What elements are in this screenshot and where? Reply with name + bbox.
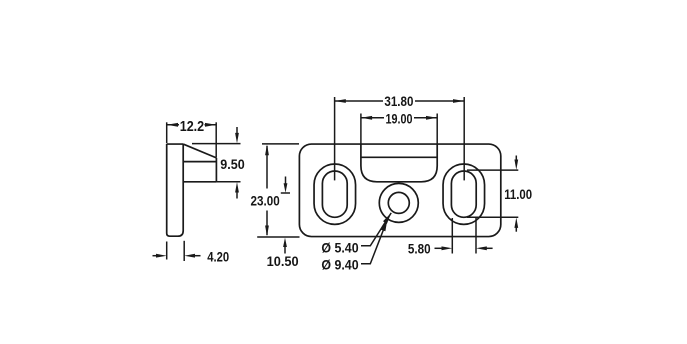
dim 11.00 lower arrow stem [515,227,517,232]
arrowhead leader 9.40 [381,220,387,232]
dim 19.00 dimension line [361,117,437,119]
side view flange middle line [183,161,216,163]
dim 19.00 right extension line [436,114,438,145]
svg-text:12.2: 12.2 [180,118,205,135]
arrowhead 10.50 down [284,183,288,193]
right slot inner [451,171,476,217]
dim 19.00 left extension line [360,114,362,145]
dim 10.50 upper extension tick [281,192,290,194]
side view flange bottom line [183,181,216,183]
svg-text:Ø 5.40: Ø 5.40 [321,240,358,256]
dim 10.50 lower arrow stem [284,247,286,254]
svg-text:19.00: 19.00 [386,110,413,126]
center hole outer circle [379,183,418,222]
dim 9.50 top extension line [192,143,241,145]
dim 31.80 left extension line [334,97,336,180]
svg-text:23.00: 23.00 [251,193,280,209]
arrowhead 11.00 up [514,218,518,228]
dim 23.00 dimension line [266,146,268,235]
center hole inner circle [388,192,409,213]
dim 4.20 right arrow tail [195,255,201,257]
dim 9.50 bottom extension line [216,181,240,183]
svg-text:Ø 9.40: Ø 9.40 [321,257,358,273]
dim 31.80 right extension line [463,97,465,180]
dim 12.2 left extension line [166,122,168,143]
arrowhead 12.2 left [167,123,178,127]
arrowhead 4.20 leftward [184,254,195,258]
dim 4.20 left extension line [166,242,168,260]
side view plate outline [167,144,184,236]
svg-text:4.20: 4.20 [207,249,229,265]
arrowhead 11.00 down [514,160,518,170]
dim 5.80 left extension line [451,218,453,254]
front view tongue outline [361,144,437,182]
front view plate outline [299,144,500,237]
arrowhead 9.50 up [235,182,239,193]
dim 23.00 bottom extension line [257,236,299,238]
leader line for dia 5.40 [361,213,391,246]
dim 9.50 lower arrow stem [236,192,238,199]
left slot outer [314,164,356,224]
arrowhead 10.50 up [283,238,287,247]
arrowhead 4.20 rightward [156,254,167,258]
dim 11.00 upper arrow stem [515,156,517,162]
dim 4.20 right extension line [183,241,185,261]
svg-text:5.80: 5.80 [408,240,431,256]
dim 31.80 dimension line [335,100,465,102]
svg-text:31.80: 31.80 [384,93,413,109]
left slot inner [322,171,347,217]
dim 12.2 dimension line [167,124,217,126]
dim 4.20 left arrow tail [153,255,158,257]
svg-text:11.00: 11.00 [504,186,532,202]
dim 23.00 top extension line [262,143,299,145]
dim 12.2 right extension line [215,122,217,157]
dim 9.50 upper arrow stem [236,127,238,134]
dim 10.50 upper arrow stem [285,177,287,185]
dim 11.00 bottom extension line [467,216,518,218]
arrowhead 23.00 down [265,226,269,237]
side view flange diagonal edge [183,144,216,158]
arrowhead 19.00 left [361,116,372,120]
arrowhead 31.80 right [453,99,464,103]
arrowhead 9.50 down [235,133,239,144]
arrowhead 31.80 left [335,99,346,103]
right slot outer [443,164,485,224]
arrowhead 5.80 rightward [442,246,453,250]
svg-text:10.50: 10.50 [267,253,299,269]
dim 11.00 top extension line [467,169,518,171]
front view tongue inner line [361,156,437,158]
arrowhead 23.00 up [265,144,269,155]
arrowhead leader 5.40 [383,213,391,224]
arrowhead 12.2 right [205,123,216,127]
leader line for dia 9.40 [361,220,387,264]
dim 5.80 right extension line [475,218,477,254]
arrowhead 19.00 right [426,116,437,120]
side view flange tip vertical edge [215,158,217,182]
arrowhead 5.80 leftward [476,246,487,250]
dim 5.80 right arrow tail [486,247,493,249]
dim 5.80 left arrow tail [435,247,443,249]
svg-text:9.50: 9.50 [220,156,245,172]
